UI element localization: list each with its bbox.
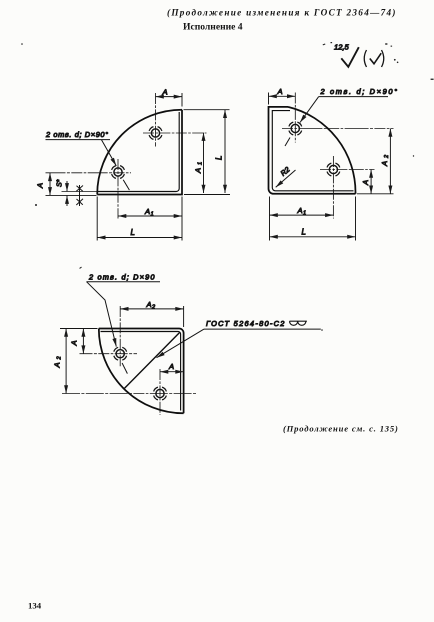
part outline view 1 <box>97 110 182 195</box>
label R2 (drawing 2) <box>276 165 296 187</box>
inner bend contour view 2 <box>272 111 353 191</box>
svg-text:A: A <box>194 168 203 174</box>
hole upper (drawing 3) <box>80 306 138 367</box>
svg-text:A: A <box>146 300 152 309</box>
svg-text:A: A <box>168 362 174 371</box>
hole top (drawing 1) <box>143 93 207 147</box>
dimension A left (drawing 3) <box>60 329 98 354</box>
dimension L bottom (drawing 2) <box>270 197 356 241</box>
part outline view 2 <box>269 107 356 194</box>
svg-text:2: 2 <box>151 304 156 310</box>
hole left (drawing 1) <box>46 159 132 219</box>
svg-text:L: L <box>215 156 224 160</box>
svg-text:A: A <box>361 180 370 186</box>
inner bend contour view 3 <box>101 332 181 411</box>
svg-text:S*: S* <box>57 179 64 187</box>
svg-text:2: 2 <box>57 356 63 361</box>
hole upper (drawing 2) <box>282 93 394 143</box>
svg-text:A: A <box>162 87 168 96</box>
svg-text:A: A <box>53 362 62 368</box>
dimension A2 right (drawing 2) <box>357 129 394 194</box>
leader 2 otv d D90 (drawing 2) <box>285 87 399 146</box>
dimension A2 left (drawing 3) <box>53 329 67 394</box>
svg-text:A: A <box>36 183 45 189</box>
leader GOST 5264-80-C2 weld (drawing 3) <box>157 319 321 358</box>
weld seam diagonal <box>125 333 180 389</box>
dimension S* thickness (drawing 1) <box>57 179 97 206</box>
svg-text:A: A <box>277 87 283 96</box>
dimension A middle (drawing 3) <box>160 362 184 372</box>
dimension A1 bottom (drawing 2) <box>270 197 334 241</box>
dimension A left (drawing 1) <box>36 173 97 196</box>
hole lower (drawing 2) <box>320 156 375 219</box>
dimension A right small (drawing 2) <box>361 170 371 194</box>
thickness tick marks X (drawing 1) <box>76 185 83 206</box>
part outline view 3 <box>99 329 184 414</box>
svg-text:L: L <box>302 227 306 236</box>
svg-text:A: A <box>380 161 389 167</box>
dimension A1 right (drawing 1) <box>184 133 230 195</box>
svg-text:134: 134 <box>28 601 42 611</box>
scan noise specks <box>21 42 433 331</box>
dimension A1 bottom (drawing 1) <box>118 197 182 241</box>
dimension A top (drawing 1) <box>156 87 183 106</box>
svg-text:L: L <box>131 228 135 237</box>
svg-text:A: A <box>70 340 79 346</box>
surface roughness mark 12,5 <box>334 43 384 68</box>
dimension L bottom (drawing 1) <box>97 197 182 241</box>
svg-text:2: 2 <box>384 154 390 159</box>
svg-text:1: 1 <box>303 211 306 217</box>
hole lower (drawing 3) <box>62 369 197 415</box>
svg-text:(Продолжение изменения к ГОСТ: (Продолжение изменения к ГОСТ 2364—74) <box>167 8 397 18</box>
svg-text:1: 1 <box>198 162 204 165</box>
svg-text:2 отв. d; D×90°: 2 отв. d; D×90° <box>45 130 109 139</box>
svg-text:(Продолжение см. с. 135): (Продолжение см. с. 135) <box>283 424 399 434</box>
inner bend contour view 1 <box>98 112 180 192</box>
svg-text:A: A <box>297 206 303 215</box>
dimension A top (drawing 2) <box>269 87 296 105</box>
svg-text:2 отв. d; D×90: 2 отв. d; D×90 <box>88 272 156 281</box>
svg-text:ГОСТ 5264-80-С2: ГОСТ 5264-80-С2 <box>206 319 286 328</box>
dimension L right (drawing 1) <box>184 110 230 193</box>
leader 2 otv d D90 (drawing 3) <box>87 272 161 373</box>
svg-text:R2: R2 <box>279 165 292 178</box>
svg-text:2 отв. d; D×90°: 2 отв. d; D×90° <box>320 87 399 96</box>
svg-text:A: A <box>144 207 150 216</box>
dimension A2 top (drawing 3) <box>120 300 183 327</box>
leader 2 otv d D90 (drawing 1) <box>45 130 129 190</box>
svg-text:Исполнение 4: Исполнение 4 <box>183 22 243 33</box>
svg-text:12,5: 12,5 <box>334 43 350 52</box>
